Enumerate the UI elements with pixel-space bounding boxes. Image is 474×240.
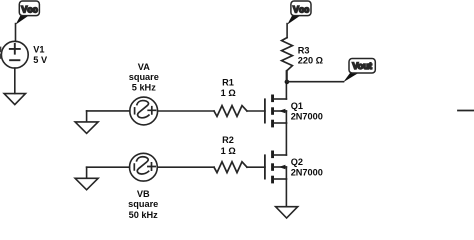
svg-text:Vcc: Vcc [293, 5, 309, 15]
net flag Vcc (top-left) [16, 1, 40, 25]
svg-text:V1: V1 [33, 45, 44, 55]
wire R1 to Q1 gate [247, 110, 265, 112]
net flag Vcc (above R3) [287, 1, 311, 25]
ground (below V1) [4, 94, 25, 105]
svg-text:R1: R1 [222, 77, 234, 87]
svg-text:1 Ω: 1 Ω [221, 88, 236, 98]
label R3 220 Ohm [298, 46, 323, 66]
wire VA to R1 [158, 110, 214, 112]
label V1 5 V [33, 45, 48, 65]
resistor R1 [214, 106, 247, 117]
label VA square 5 kHz [129, 62, 159, 93]
label R2 1 Ohm [221, 135, 236, 156]
transistor Q1 (NMOS 2N7000) [265, 95, 287, 128]
svg-text:Vout: Vout [352, 61, 372, 71]
wire R2 to Q2 gate [247, 166, 265, 168]
ground (VB return) [75, 167, 98, 190]
ground (below Q2) [276, 207, 298, 218]
svg-text:50 kHz: 50 kHz [129, 210, 159, 220]
wire Vcc flag to V1 [15, 24, 17, 42]
voltage source V1 [1, 41, 28, 68]
svg-text:VB: VB [137, 189, 150, 199]
svg-text:Q1: Q1 [291, 101, 303, 111]
cropped fragment at left edge [0, 47, 1, 59]
label Q1 2N7000 [291, 101, 323, 122]
wire ground to VB [87, 166, 130, 168]
wire node to Vout flag [287, 81, 344, 83]
svg-text:220 Ω: 220 Ω [298, 56, 323, 66]
wire VB to R2 [157, 166, 214, 168]
wire ground to VA [87, 110, 130, 112]
source VB (square 50 kHz) [130, 153, 158, 181]
net flag Vout [343, 59, 375, 83]
resistor R2 [214, 162, 247, 173]
transistor Q2 (NMOS 2N7000) [265, 151, 287, 184]
label R1 1 Ohm [221, 77, 236, 98]
svg-text:1 Ω: 1 Ω [221, 146, 236, 156]
svg-text:Q2: Q2 [291, 157, 303, 167]
svg-text:5 V: 5 V [33, 55, 48, 65]
wire Q2 source to ground [285, 179, 287, 207]
node (Vout junction) [285, 80, 290, 85]
svg-text:VA: VA [138, 62, 150, 72]
label VB square 50 kHz [128, 189, 158, 220]
svg-text:5 kHz: 5 kHz [132, 83, 156, 93]
svg-text:2N7000: 2N7000 [291, 112, 323, 122]
label Q2 2N7000 [291, 157, 323, 178]
wire V1 to ground [14, 68, 16, 93]
source VA (square 5 kHz) [130, 97, 158, 125]
wire Q1 source to Q2 drain [285, 123, 287, 155]
svg-text:R2: R2 [222, 135, 234, 145]
ground (VA return) [75, 111, 98, 133]
wire Vcc flag to R3 [286, 24, 288, 38]
wire fragment at right edge [458, 110, 474, 112]
wire R3 to node [286, 71, 288, 81]
svg-text:R3: R3 [298, 46, 310, 56]
wire Q1 drain up to node [285, 71, 287, 99]
svg-text:Vcc: Vcc [21, 5, 37, 15]
svg-text:square: square [129, 72, 159, 82]
svg-text:2N7000: 2N7000 [291, 168, 323, 178]
resistor R3 (vertical) [282, 38, 293, 71]
svg-text:square: square [128, 199, 158, 209]
